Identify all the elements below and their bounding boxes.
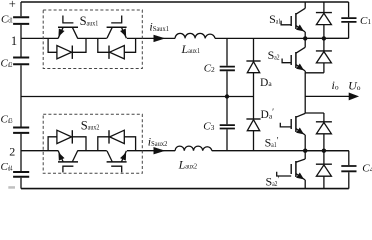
capacitor Cd2 — [13, 58, 29, 65]
wire top rail — [21, 1, 349, 3]
junction dot node A at diode — [322, 36, 326, 40]
svg-text:Cd1: Cd1 — [1, 13, 13, 25]
wire node B-prime link — [305, 112, 324, 114]
diode Da-prime — [246, 118, 260, 120]
wire bottom rail — [21, 188, 349, 190]
wire Da-Dap column — [253, 38, 255, 150]
diode Saux1-right — [98, 38, 136, 52]
inductor Laux1 — [175, 33, 215, 38]
wire node A-prime link — [305, 150, 349, 152]
diode Saux2-left — [48, 137, 86, 151]
wire phase column mid — [304, 73, 306, 113]
diode across Sa2 — [316, 50, 332, 52]
svg-text:Da: Da — [260, 77, 272, 89]
wire C4 column — [348, 151, 350, 189]
junction dot node A-prime at leg — [303, 149, 307, 153]
transistor Saux1-left IGBT — [62, 16, 73, 23]
wire node A link — [305, 37, 348, 39]
svg-text:Da′: Da′ — [261, 107, 275, 121]
wire C2-C3 column — [226, 38, 228, 150]
wire node B link — [305, 72, 324, 74]
diode Saux1-left — [48, 38, 86, 52]
svg-text:C3: C3 — [203, 120, 214, 132]
diode Saux2-right — [98, 137, 136, 151]
svg-text:C2: C2 — [204, 63, 215, 75]
auxiliary switch cell Saux1 dashed box — [43, 10, 142, 69]
capacitor Cd4 — [13, 172, 29, 177]
current arrow iSaux1 — [154, 35, 165, 42]
wire node-2 row — [21, 150, 349, 152]
transistor Saux2-right IGBT — [111, 166, 122, 172]
capacitor C1 — [341, 18, 356, 22]
svg-text:Cd3: Cd3 — [1, 114, 13, 126]
svg-text:Cd2: Cd2 — [1, 57, 13, 69]
capacitor Cd1 — [13, 17, 29, 24]
wire left DC rail — [20, 2, 22, 189]
svg-text:2: 2 — [9, 145, 15, 159]
transistor Sa2 — [304, 38, 306, 47]
transistor Sa2-prime — [304, 151, 306, 159]
svg-text:Cd4: Cd4 — [1, 161, 13, 173]
wire node-1 row — [21, 37, 349, 39]
current arrow iSaux2 — [154, 147, 165, 154]
diode across Sa1-prime — [316, 121, 332, 123]
capacitor Cd3 — [13, 128, 29, 133]
svg-text:+: + — [9, 0, 16, 11]
wire diode column — [323, 2, 325, 189]
wire output line — [305, 95, 350, 97]
transistor Saux1-right IGBT — [111, 16, 122, 23]
transistor Sa1-prime — [304, 112, 306, 114]
capacitor C2 — [220, 67, 235, 71]
transistor Sa1 — [304, 2, 306, 8]
junction dot node A at leg — [303, 36, 307, 40]
wire C1 column — [348, 2, 350, 38]
transistor Saux2-left IGBT — [62, 166, 73, 172]
junction dot node A-prime at diode — [322, 149, 326, 153]
junction dot C2-midrail — [225, 94, 229, 98]
diode across Sa1 — [316, 12, 332, 14]
svg-text:1: 1 — [11, 34, 17, 48]
capacitor C3 — [220, 125, 235, 128]
diode across Sa2-prime — [316, 163, 332, 165]
inductor Laux2 — [175, 146, 212, 151]
wire midpoint rail — [21, 96, 254, 98]
auxiliary switch cell Saux2 dashed box — [43, 114, 142, 173]
diode Da — [246, 60, 260, 62]
svg-text:C1: C1 — [360, 15, 371, 27]
svg-text:C4: C4 — [362, 162, 372, 174]
capacitor C4 — [341, 166, 356, 171]
node - (negative DC rail label) — [8, 186, 15, 189]
current arrow Io — [349, 93, 358, 100]
